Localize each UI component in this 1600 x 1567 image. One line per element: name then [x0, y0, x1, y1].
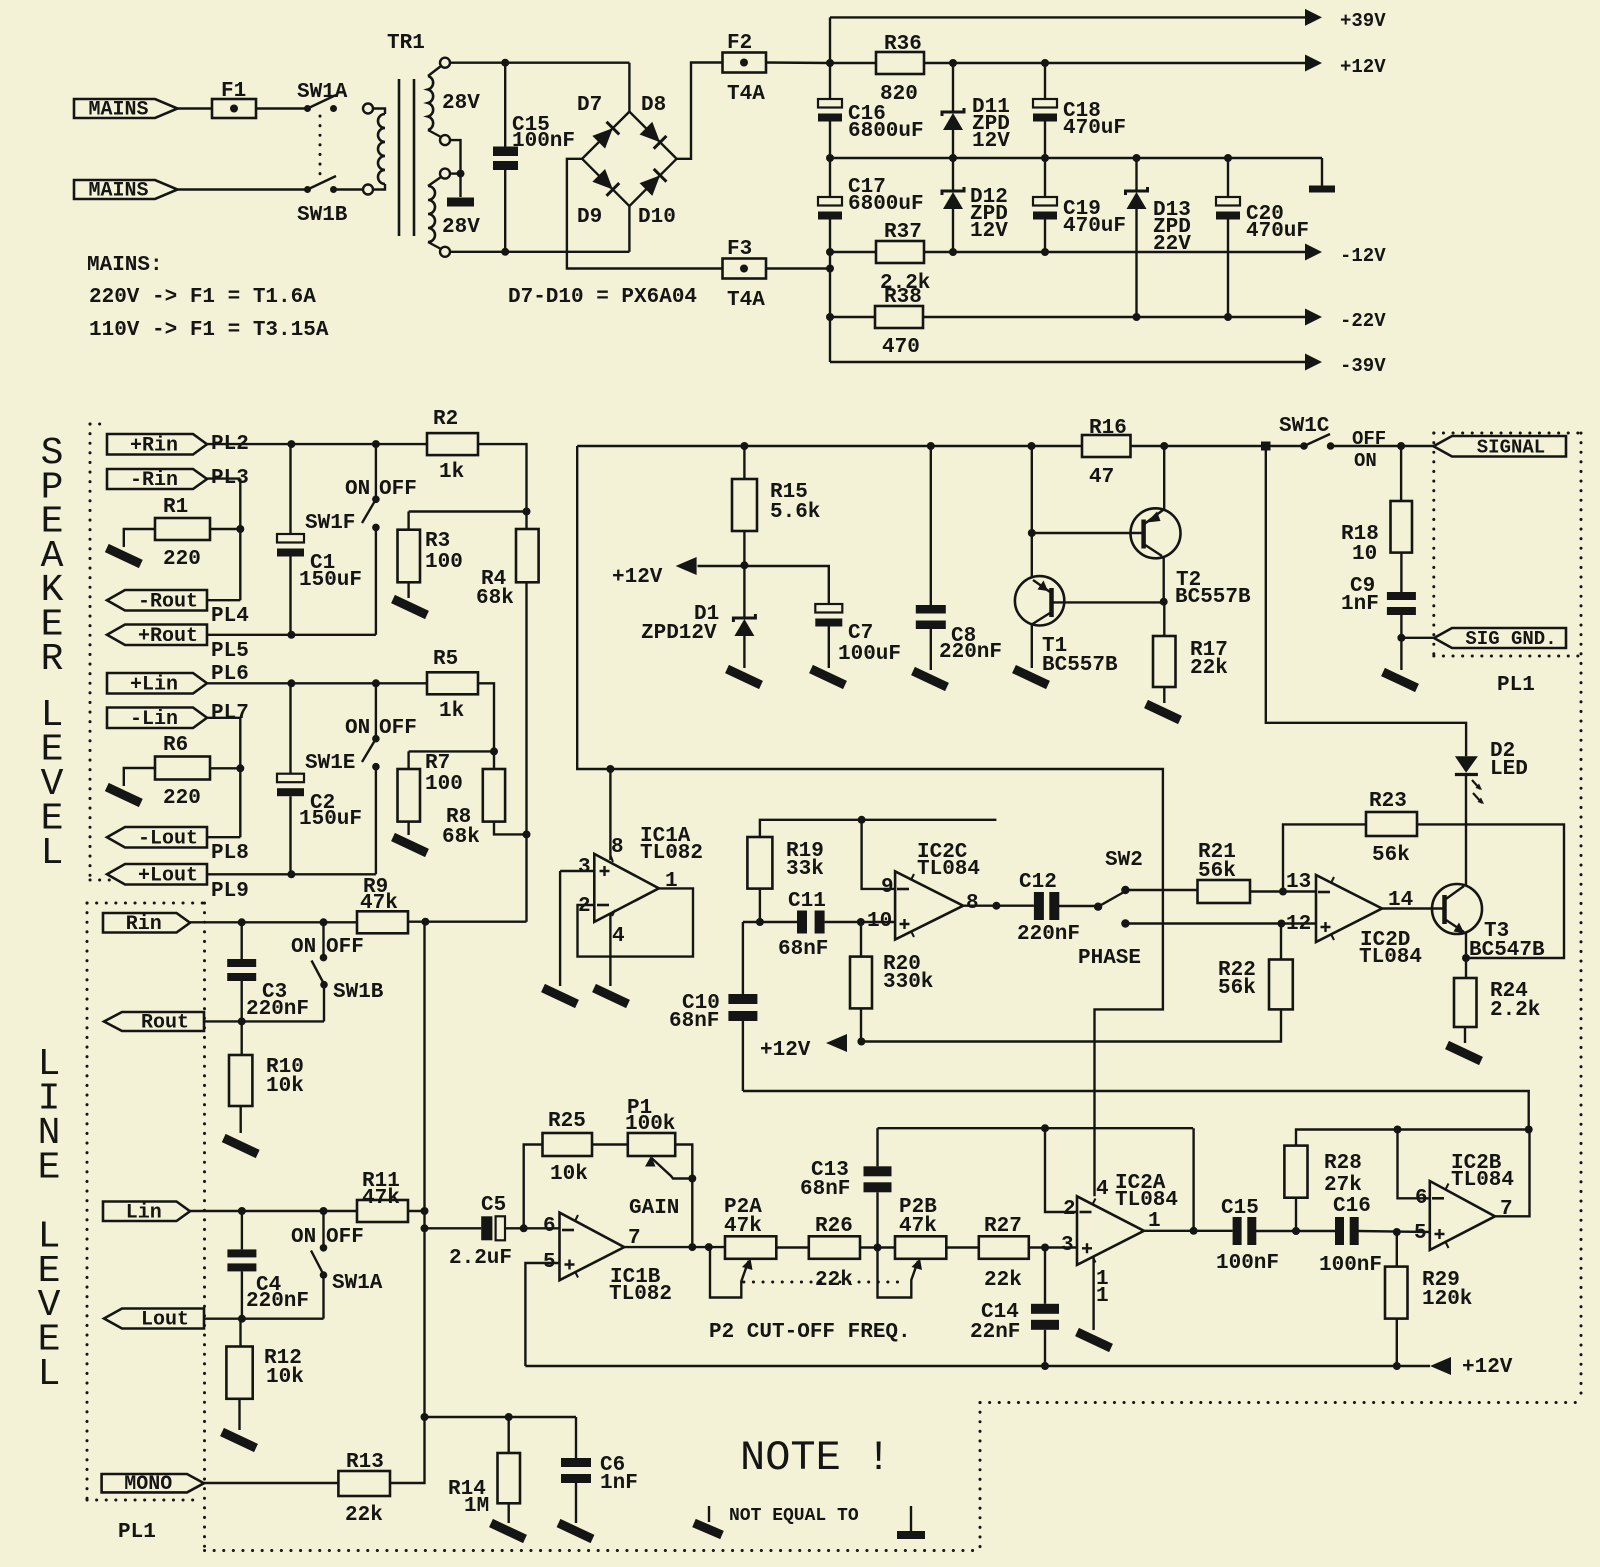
capacitor C6 1nF	[575, 1417, 577, 1458]
svg-text:SW1C: SW1C	[1279, 415, 1330, 438]
connector MAINS (bottom)	[74, 180, 178, 199]
capacitor C16 6800uF	[829, 63, 831, 99]
ground (C8)	[913, 671, 947, 687]
wire R19 top feedback	[760, 820, 997, 837]
ground (R7)	[393, 837, 427, 853]
wire	[178, 107, 213, 109]
svg-text:GAIN: GAIN	[629, 1197, 679, 1220]
svg-text:R37: R37	[884, 221, 922, 244]
wire R27 out node	[1029, 1246, 1077, 1248]
wire bridge - to F3	[567, 159, 723, 269]
ground symbol (slanted)	[708, 1506, 710, 1522]
svg-text:PL4: PL4	[211, 605, 249, 628]
wire R5 right	[478, 683, 494, 751]
resistor R11 47k	[357, 1200, 408, 1222]
svg-text:P2 CUT-OFF FREQ.: P2 CUT-OFF FREQ.	[709, 1321, 911, 1344]
resistor R12 10k	[239, 1319, 241, 1347]
svg-text:+12V: +12V	[1462, 1356, 1513, 1379]
wire AC top	[450, 62, 629, 64]
resistor R23 56k	[1366, 812, 1417, 836]
connector PL2 +Rin	[107, 434, 207, 455]
op-amp IC2C TL084	[895, 871, 963, 939]
svg-text:28V: 28V	[442, 92, 480, 115]
fuse F3 T4A	[723, 259, 767, 279]
svg-text:1k: 1k	[439, 700, 464, 723]
capacitor C3 220nF	[240, 922, 242, 959]
capacitor C15 100nF	[504, 63, 506, 147]
svg-text:ON: ON	[345, 478, 370, 501]
op-amp IC1B TL082	[560, 1213, 625, 1281]
resistor R38 470	[830, 316, 875, 318]
resistor R36 820	[830, 62, 876, 64]
wire R14 ground	[508, 1503, 510, 1523]
capacitor C12 220nF	[1034, 892, 1044, 920]
svg-text:F3: F3	[727, 238, 752, 261]
svg-text:Rin: Rin	[126, 913, 162, 936]
zener D11 ZPD 12V	[952, 63, 954, 112]
wire D2 anode to SW1C node	[1266, 446, 1466, 756]
svg-text:R23: R23	[1369, 790, 1407, 813]
svg-text:68nF: 68nF	[800, 1178, 850, 1201]
svg-text:-Lout: -Lout	[138, 827, 198, 850]
resistor R17 22k	[1163, 602, 1165, 636]
connector PL6 +Lin	[107, 673, 207, 694]
connector MONO	[102, 1474, 204, 1492]
wire T1 collector to ground	[1031, 624, 1033, 668]
svg-text:R36: R36	[884, 33, 922, 56]
svg-text:PHASE: PHASE	[1078, 947, 1141, 970]
svg-text:OFF: OFF	[326, 936, 364, 959]
svg-text:C7: C7	[848, 622, 873, 645]
resistor R37 2.2k	[830, 251, 876, 253]
potentiometer P2B 47k	[895, 1236, 946, 1259]
svg-text:R26: R26	[815, 1215, 853, 1238]
svg-text:PL8: PL8	[211, 842, 249, 865]
svg-text:3: 3	[1061, 1234, 1074, 1257]
svg-text:-Rin: -Rin	[130, 469, 178, 492]
wire R17 to ground	[1163, 687, 1165, 703]
secondary winding upper 28V	[440, 58, 450, 68]
svg-text:150uF: 150uF	[299, 808, 362, 831]
svg-text:D7-D10 = PX6A04: D7-D10 = PX6A04	[508, 286, 697, 309]
resistor R3 100	[398, 530, 421, 583]
capacitor C11 68nF	[797, 911, 807, 934]
svg-text:1: 1	[1148, 1210, 1161, 1233]
capacitor C13 68nF	[876, 1128, 878, 1166]
zener D12 ZPD 12V	[952, 158, 954, 191]
svg-text:TL084: TL084	[1359, 946, 1422, 969]
wire +39V rail	[830, 16, 1306, 18]
wire	[334, 188, 364, 190]
ground (R17)	[1146, 704, 1180, 720]
svg-text:L: L	[41, 832, 64, 875]
wire R7 to ground	[407, 822, 409, 835]
resistor R25 10k	[543, 1133, 593, 1156]
switch SW1C	[1300, 442, 1308, 450]
connector Rin	[103, 913, 190, 933]
dotted border PL1 (signal)	[1434, 432, 1581, 435]
svg-text:TL082: TL082	[640, 842, 703, 865]
node -39V raw / F3 join	[826, 265, 834, 273]
svg-text:10: 10	[867, 910, 892, 933]
svg-text:Rout: Rout	[141, 1012, 189, 1035]
capacitor C10 68nF	[742, 922, 744, 994]
wire switched supply run	[577, 446, 1163, 1196]
resistor R29 120k	[1396, 1232, 1398, 1267]
svg-text:+12V: +12V	[1340, 56, 1386, 78]
wire R14/C6 branch	[425, 1416, 577, 1418]
wire SW2 up contact to R21	[1125, 889, 1197, 891]
wire IC2B output	[1495, 1130, 1530, 1217]
wire +Rin node	[207, 443, 427, 445]
wire +Rout node	[207, 634, 376, 636]
svg-text:NOTE !: NOTE !	[740, 1434, 891, 1482]
wire R24 to ground	[1464, 1027, 1466, 1043]
svg-text:220V -> F1 = T1.6A: 220V -> F1 = T1.6A	[89, 286, 316, 309]
diode D8	[640, 122, 667, 149]
connector PL9 +Lout	[107, 864, 207, 885]
svg-text:Lin: Lin	[126, 1201, 162, 1224]
op-amp IC2B TL084	[1430, 1181, 1495, 1250]
svg-text:L: L	[38, 1353, 61, 1396]
resistor R4 68k	[516, 529, 539, 582]
ground (R3)	[393, 599, 427, 615]
wire T1 base to T2 collector node	[1054, 601, 1164, 603]
svg-text:ZPD12V: ZPD12V	[641, 622, 717, 645]
svg-text:10k: 10k	[266, 1075, 304, 1098]
resistor R14 1M	[508, 1417, 510, 1453]
svg-text:68nF: 68nF	[669, 1010, 719, 1033]
diode D9	[592, 169, 619, 196]
resistor R6 220	[155, 757, 210, 780]
wire R9 out node	[408, 921, 527, 923]
ground (C6)	[559, 1523, 593, 1539]
wire Rout node	[204, 1020, 324, 1022]
ground (IC1A pin4)	[594, 988, 628, 1004]
wire R12 to ground	[238, 1399, 240, 1430]
transistor T2 BC557B	[1131, 508, 1181, 558]
wire IC1B output	[624, 1246, 725, 1248]
svg-text:-12V: -12V	[1340, 245, 1386, 267]
ground (C9)	[1383, 672, 1417, 688]
fuse F1	[212, 99, 256, 118]
center tap chassis ground	[447, 198, 474, 207]
resistor R18 10	[1400, 446, 1402, 501]
svg-text:110V -> F1 = T3.15A: 110V -> F1 = T3.15A	[89, 319, 329, 342]
capacitor C19 470uF	[1044, 158, 1046, 197]
svg-text:ON: ON	[1354, 450, 1377, 472]
ground (R12)	[222, 1432, 256, 1448]
wire MONO to R13	[201, 1482, 338, 1484]
wire R3 to ground	[407, 582, 409, 598]
switch SW1B (line)	[322, 922, 324, 957]
ground (R10)	[224, 1138, 258, 1154]
svg-text:D10: D10	[638, 206, 676, 229]
ground symbol (chassis)	[910, 1506, 912, 1531]
svg-text:SIGNAL: SIGNAL	[1477, 436, 1545, 458]
svg-text:2.2uF: 2.2uF	[449, 1247, 512, 1270]
svg-text:SW1A: SW1A	[297, 81, 348, 104]
svg-text:47: 47	[1089, 466, 1114, 489]
capacitor C1 150uF	[289, 444, 291, 534]
resistor R21 56k	[1198, 880, 1251, 903]
wire SW1C to SIGNAL	[1331, 445, 1434, 447]
svg-text:12V: 12V	[972, 130, 1010, 153]
+12V arrow (auto-on)	[698, 565, 745, 567]
wire +Lout node	[207, 873, 376, 875]
ground (R6)	[107, 787, 141, 803]
svg-text:56k: 56k	[1198, 860, 1236, 883]
svg-text:D7: D7	[577, 94, 602, 117]
svg-text:470uF: 470uF	[1063, 117, 1126, 140]
center tap wires	[450, 140, 461, 174]
svg-text:+39V: +39V	[1340, 10, 1386, 32]
svg-text:120k: 120k	[1422, 1288, 1472, 1311]
connector Rout	[104, 1012, 204, 1031]
resistor R26 22k	[809, 1236, 860, 1259]
wire IC2A pin2	[1045, 1128, 1077, 1212]
svg-text:+Rout: +Rout	[138, 625, 198, 648]
wire T3 collector / D2 cathode	[1465, 776, 1467, 886]
svg-text:T4A: T4A	[727, 289, 765, 312]
wire	[256, 107, 308, 109]
svg-text:7: 7	[1500, 1198, 1513, 1221]
resistor R2 1k	[427, 433, 478, 455]
svg-text:1nF: 1nF	[600, 1472, 638, 1495]
svg-text:SW1F: SW1F	[305, 512, 355, 535]
wire IC2A feedback vertical	[1192, 1128, 1194, 1231]
secondary winding lower 28V	[440, 169, 450, 179]
op-amp IC2D TL084	[1316, 875, 1382, 942]
svg-text:C15: C15	[1221, 1197, 1259, 1220]
svg-text:SW1A: SW1A	[332, 1272, 383, 1295]
fuse F2 T4A	[723, 53, 767, 73]
svg-text:100uF: 100uF	[838, 643, 901, 666]
wire R6 left to ground	[124, 768, 155, 786]
svg-text:27k: 27k	[1324, 1174, 1362, 1197]
wire R20 to +12V node	[860, 1008, 862, 1041]
resistor R28 27k	[1284, 1146, 1307, 1198]
node dots on +12V rail	[949, 59, 957, 67]
node dots on -12V rail	[826, 248, 834, 256]
svg-text:MAINS:: MAINS:	[87, 254, 163, 277]
svg-text:8: 8	[966, 892, 979, 915]
svg-text:SIG GND.: SIG GND.	[1465, 628, 1556, 650]
+12V arrow (bottom)	[1430, 1357, 1451, 1375]
svg-text:-39V: -39V	[1340, 355, 1386, 377]
wire IC2A output node	[1144, 1230, 1233, 1232]
svg-text:R25: R25	[548, 1110, 586, 1133]
svg-text:220nF: 220nF	[246, 998, 309, 1021]
svg-text:F2: F2	[727, 32, 752, 55]
svg-text:OFF: OFF	[379, 478, 417, 501]
wire P2A to R26	[776, 1246, 809, 1248]
wire -39V rail	[830, 361, 1306, 363]
wire -Lin node	[207, 717, 240, 719]
svg-text:TL084: TL084	[917, 858, 980, 881]
svg-text:220nF: 220nF	[939, 641, 1002, 664]
svg-text:220nF: 220nF	[246, 1290, 309, 1313]
svg-text:D8: D8	[641, 94, 666, 117]
wire -Rin node	[207, 477, 240, 479]
svg-text:PL5: PL5	[211, 640, 249, 663]
wire T2 emitter to supply	[1163, 446, 1165, 511]
svg-text:ON: ON	[291, 936, 316, 959]
zener D13 ZPD 22V	[1135, 158, 1137, 191]
svg-text:NOT EQUAL TO: NOT EQUAL TO	[729, 1506, 859, 1526]
svg-text:22k: 22k	[345, 1504, 383, 1527]
chassis ground (supply)	[1321, 158, 1323, 186]
svg-text:+Lout: +Lout	[138, 864, 198, 887]
wire C10 to IC2B output loop	[743, 1091, 1529, 1130]
svg-text:MAINS: MAINS	[88, 99, 148, 122]
svg-text:TR1: TR1	[387, 32, 425, 55]
wire +Lin node	[207, 682, 427, 684]
svg-text:150uF: 150uF	[299, 569, 362, 592]
connector SIG GND.	[1434, 628, 1566, 648]
capacitor C16 100nF (filter)	[1335, 1217, 1344, 1245]
svg-text:13: 13	[1286, 871, 1311, 894]
wire +12V rail to R22	[861, 1009, 1281, 1041]
wire supply to pin8	[606, 765, 614, 773]
connector Lout	[104, 1309, 204, 1329]
node +39V	[826, 59, 834, 67]
wire R28 top rail	[1296, 1130, 1529, 1146]
wire R26 out node	[860, 1246, 895, 1248]
svg-text:T4A: T4A	[727, 83, 765, 106]
capacitor C14 22nF	[1044, 1248, 1046, 1304]
svg-text:10: 10	[1352, 543, 1377, 566]
wire Lin node	[190, 1210, 357, 1212]
-22V arrow	[1305, 309, 1322, 326]
zener D1 ZPD12V	[743, 565, 745, 618]
svg-text:470: 470	[882, 336, 920, 359]
svg-text:SW1B: SW1B	[297, 204, 348, 227]
svg-text:10k: 10k	[266, 1366, 304, 1389]
svg-text:-Lin: -Lin	[130, 708, 178, 731]
wire F3 to -39V node	[766, 267, 830, 269]
svg-text:1M: 1M	[464, 1495, 489, 1518]
wire AC bottom	[450, 251, 629, 253]
connector PL4 -Rout	[107, 590, 207, 611]
resistor R9 47k	[357, 911, 408, 933]
resistor R8 68k	[483, 769, 505, 822]
diode D10	[640, 169, 667, 196]
capacitor C15 100nF (filter)	[1233, 1217, 1242, 1245]
switch SW1A (line)	[322, 1211, 324, 1248]
switch SW2 PHASE	[1094, 903, 1102, 911]
svg-text:LED: LED	[1490, 758, 1528, 781]
svg-text:68nF: 68nF	[778, 938, 828, 961]
svg-text:47k: 47k	[724, 1215, 762, 1238]
svg-text:R1: R1	[163, 496, 188, 519]
svg-text:330k: 330k	[883, 971, 933, 994]
ground (R14)	[491, 1523, 525, 1539]
capacitor C2 150uF	[289, 683, 291, 773]
connector SIGNAL	[1434, 436, 1567, 457]
switch SW1E	[375, 683, 377, 738]
svg-text:47k: 47k	[362, 1187, 400, 1210]
potentiometer P1 100k	[628, 1133, 675, 1156]
svg-text:PL7: PL7	[211, 702, 249, 725]
ground (T1)	[1014, 669, 1048, 685]
svg-text:47k: 47k	[360, 892, 398, 915]
svg-text:R: R	[41, 638, 64, 681]
wire R6 right	[210, 767, 240, 769]
P2A wiper return	[710, 1247, 749, 1297]
bridge rectifier frame	[582, 112, 677, 207]
transistor T1 BC557B	[1015, 576, 1064, 625]
svg-text:R7: R7	[425, 752, 450, 775]
wire R11 out	[408, 1210, 425, 1212]
wire bridge + to F2	[677, 63, 723, 159]
svg-text:TL084: TL084	[1451, 1169, 1514, 1192]
dotted border speaker-level	[90, 423, 107, 426]
connector PL5 +Rout	[107, 625, 207, 646]
-12V arrow	[1305, 244, 1322, 261]
+12V arrow	[1305, 55, 1322, 72]
resistor R22 56k	[1280, 924, 1282, 960]
svg-text:12: 12	[1286, 913, 1311, 936]
wire R23 to T3 emitter	[1417, 824, 1564, 958]
wire IC2B pin6	[1398, 1130, 1430, 1199]
wire R1 left to ground	[124, 529, 155, 547]
svg-text:100: 100	[425, 551, 463, 574]
svg-text:SW2: SW2	[1105, 849, 1143, 872]
potentiometer P2A 47k	[725, 1236, 776, 1259]
svg-text:220nF: 220nF	[1017, 923, 1080, 946]
wire C9 to ground	[1400, 638, 1402, 670]
svg-text:MONO: MONO	[124, 1473, 172, 1496]
capacitor C5 2.2uF	[425, 1227, 482, 1229]
svg-text:ON: ON	[291, 1226, 316, 1249]
svg-text:220: 220	[163, 787, 201, 810]
svg-text:47k: 47k	[899, 1215, 937, 1238]
wire pin4 to ground	[609, 914, 611, 987]
svg-text:PL1: PL1	[118, 1521, 156, 1544]
wire R13 out / mix vertical	[390, 922, 425, 1483]
svg-text:BC547B: BC547B	[1469, 939, 1545, 962]
svg-text:100nF: 100nF	[512, 130, 575, 153]
wire R7 branch	[409, 750, 494, 752]
svg-text:+12V: +12V	[612, 566, 663, 589]
svg-text:3: 3	[578, 856, 591, 879]
wire T2 base	[1032, 532, 1144, 534]
wire R25 to P1	[592, 1143, 628, 1145]
svg-text:R28: R28	[1324, 1152, 1362, 1175]
svg-text:100k: 100k	[625, 1113, 675, 1136]
node D2 branch (square)	[1261, 442, 1271, 451]
svg-text:R27: R27	[984, 1215, 1022, 1238]
wire SIG GND node	[1397, 634, 1405, 642]
svg-text:8: 8	[611, 836, 624, 859]
wire R21 to pin13	[1250, 890, 1316, 892]
wire C11 row	[743, 921, 797, 923]
wire R23 feedback top	[1283, 824, 1366, 891]
connector Lin	[103, 1202, 190, 1222]
dotted boundary right side	[1580, 433, 1583, 1403]
svg-text:R3: R3	[425, 530, 450, 553]
svg-text:R38: R38	[884, 286, 922, 309]
wire C13 top rail	[878, 1127, 1194, 1129]
capacitor C7 100uF	[744, 566, 828, 604]
svg-text:C16: C16	[1333, 1195, 1371, 1218]
svg-text:C12: C12	[1019, 871, 1057, 894]
resistor R19 33k	[747, 837, 772, 889]
svg-text:9: 9	[881, 876, 894, 899]
svg-text:MAINS: MAINS	[88, 180, 148, 203]
svg-text:100nF: 100nF	[1319, 1254, 1382, 1277]
